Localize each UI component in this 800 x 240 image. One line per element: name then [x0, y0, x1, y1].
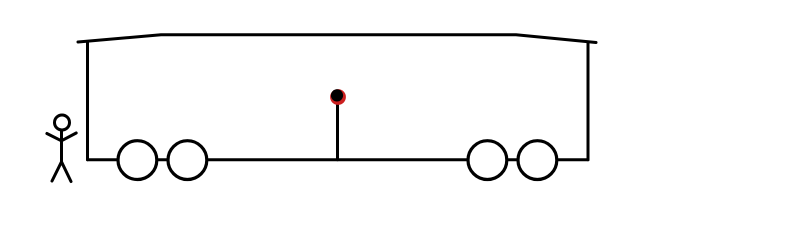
- pole of red marker: [336, 98, 339, 160]
- bus floor line: [88, 158, 589, 161]
- bus left side wall: [86, 42, 89, 160]
- stick figure body: [60, 132, 63, 162]
- bus right side wall: [587, 43, 590, 160]
- red marker ring: [330, 89, 346, 105]
- bus roof line: [78, 35, 596, 43]
- stick figure arms: [47, 133, 76, 141]
- stick figure head: [55, 115, 70, 130]
- wheel 1: [118, 141, 157, 180]
- wheel 4: [518, 141, 557, 180]
- wheel 3: [468, 141, 507, 180]
- wheel 2: [168, 141, 207, 180]
- black marker dot: [331, 89, 343, 101]
- stick figure legs: [52, 162, 71, 182]
